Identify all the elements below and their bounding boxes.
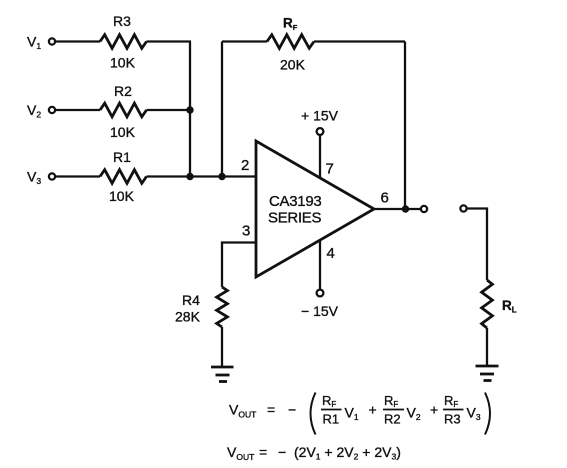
wire RL to ground	[486, 328, 488, 366]
svg-text:CA3193: CA3193	[269, 193, 321, 210]
V+ supply terminal	[317, 128, 324, 135]
svg-text:−: −	[278, 444, 286, 460]
svg-text:SERIES: SERIES	[268, 210, 322, 227]
svg-text:+ 15V: + 15V	[301, 108, 339, 124]
svg-text:+: +	[430, 402, 438, 418]
wire RF row left	[222, 40, 267, 42]
resistor RL	[482, 280, 493, 328]
wire feedback left leg	[221, 42, 223, 177]
wire RF to output leg	[314, 40, 405, 42]
resistor R3	[100, 35, 147, 49]
svg-text:7: 7	[326, 161, 334, 178]
resistor R4	[217, 287, 228, 327]
resistor RF	[267, 35, 314, 49]
wire R4 to ground	[221, 327, 223, 367]
equation Vout = -(2V1 + 2V2 + 2V3)	[227, 444, 401, 462]
svg-text:R3: R3	[113, 13, 131, 29]
svg-text:10K: 10K	[109, 188, 135, 204]
wire pin 4 to V-	[319, 241, 321, 290]
svg-text:R4: R4	[182, 292, 200, 308]
junction node (R2 join)	[186, 106, 193, 113]
wire op-amp output	[374, 208, 421, 210]
svg-text:− 15V: − 15V	[301, 303, 339, 319]
svg-text:R1: R1	[113, 149, 131, 165]
ground (RL)	[476, 366, 499, 381]
wire pin 7 to V+	[319, 135, 321, 179]
svg-text:4: 4	[327, 245, 335, 262]
svg-text:3: 3	[242, 223, 250, 240]
svg-text:=: =	[259, 444, 267, 460]
wire V2 terminal to R2	[55, 109, 100, 111]
junction node output	[402, 205, 409, 212]
wire R3 to bus	[147, 40, 192, 42]
svg-text:R3: R3	[444, 412, 461, 427]
wire load terminal to RL	[467, 209, 487, 281]
svg-text:R1: R1	[323, 412, 340, 427]
svg-text:10K: 10K	[110, 124, 136, 140]
wire summing bus vertical	[189, 42, 191, 177]
wire V1 terminal to R3	[55, 40, 100, 42]
wire V3 terminal to R1	[55, 175, 100, 177]
load terminal	[460, 205, 466, 211]
svg-text:+: +	[369, 402, 377, 418]
V- supply terminal	[317, 290, 324, 297]
junction node (R1 join)	[186, 173, 193, 180]
wire feedback right leg	[404, 42, 406, 210]
svg-text:R2: R2	[384, 412, 401, 427]
svg-text:28K: 28K	[175, 309, 201, 325]
equation Vout = -(RF/R1 V1 + RF/R2 V2 + RF/R3 V3)	[229, 393, 490, 435]
svg-text:(2V1 + 2V2 + 2V3): (2V1 + 2V2 + 2V3)	[294, 444, 401, 462]
svg-text:6: 6	[381, 190, 389, 207]
svg-text:10K: 10K	[110, 55, 136, 71]
junction node (feedback at pin 2)	[218, 173, 225, 180]
svg-text:−: −	[288, 402, 296, 418]
resistor R1	[100, 170, 147, 184]
input terminal V3	[49, 173, 55, 179]
resistor R2	[100, 103, 147, 117]
svg-text:R2: R2	[114, 83, 132, 99]
input terminal V2	[49, 107, 55, 113]
svg-text:=: =	[267, 402, 275, 418]
ground (R4)	[211, 367, 234, 382]
input terminal V1	[49, 38, 55, 44]
wire R2 to bus	[147, 109, 192, 111]
svg-text:20K: 20K	[280, 57, 306, 73]
wire pin 3 to R4	[222, 243, 256, 288]
output terminal	[421, 206, 427, 212]
svg-text:2: 2	[241, 157, 249, 174]
wire R1 to op-amp pin 2	[147, 175, 257, 177]
op-amp U1 CA3193 triangle	[256, 141, 374, 277]
